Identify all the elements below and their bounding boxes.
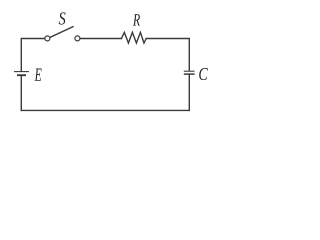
wire right-bottom segment xyxy=(188,75,190,111)
switch S right contact circle xyxy=(75,36,80,41)
wire top-right segment xyxy=(146,39,189,71)
capacitor C bottom plate xyxy=(184,73,195,75)
wire bottom segment xyxy=(21,109,189,111)
battery E short thick plate xyxy=(17,74,26,76)
label R xyxy=(133,14,140,25)
label E xyxy=(35,69,42,81)
label C xyxy=(199,68,208,80)
wire top-left segment xyxy=(21,39,44,72)
resistor R zigzag xyxy=(121,32,146,43)
switch S arm xyxy=(50,27,73,38)
label S xyxy=(59,12,66,24)
switch S left contact circle xyxy=(45,36,50,41)
capacitor C top plate xyxy=(184,70,195,72)
wire top-middle segment xyxy=(80,38,121,40)
wire left-bottom segment xyxy=(20,76,22,111)
battery E long plate xyxy=(14,71,29,73)
